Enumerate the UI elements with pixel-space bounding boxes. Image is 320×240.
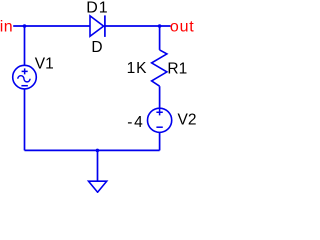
svg-text:1K: 1K: [127, 60, 148, 77]
V1 sine wave: [18, 76, 30, 82]
svg-text:D1: D1: [86, 0, 108, 17]
svg-text:-4: -4: [127, 114, 144, 131]
wire: top rail from node in to diode anode: [13, 25, 90, 27]
V1 plus sign: [22, 68, 28, 74]
wire: R1 bottom to V2 top: [159, 86, 161, 108]
svg-text:out: out: [170, 18, 195, 35]
wire: V2 bottom to bottom rail: [159, 133, 161, 151]
junction dot at ground tap: [96, 149, 100, 153]
voltage source V1 circle: [13, 65, 37, 89]
wire: V1 bottom to bottom rail: [24, 89, 26, 150]
V2 plus sign: [156, 109, 162, 115]
V1 minus sign: [21, 85, 28, 87]
svg-text:R1: R1: [167, 60, 187, 77]
V2 minus sign: [156, 126, 162, 128]
wire: left vertical from top rail to V1 top: [24, 26, 26, 65]
svg-text:V1: V1: [35, 56, 54, 73]
junction dot at in/V1 tap: [23, 24, 27, 28]
diode D1 triangle: [90, 16, 104, 36]
ground stem: [97, 150, 99, 181]
diode D1 cathode bar: [104, 15, 106, 37]
resistor R1 zigzag: [152, 50, 167, 86]
svg-text:V2: V2: [178, 112, 197, 129]
wire: diode cathode to node out: [105, 25, 171, 27]
wire: right vertical from node out to R1 top: [159, 26, 161, 50]
junction dot at out/R1 tap: [158, 24, 162, 28]
wire: bottom rail: [25, 149, 160, 151]
voltage source V2 circle: [148, 108, 172, 132]
svg-text:D: D: [91, 39, 102, 56]
svg-text:in: in: [0, 18, 13, 35]
ground triangle symbol: [89, 181, 107, 192]
